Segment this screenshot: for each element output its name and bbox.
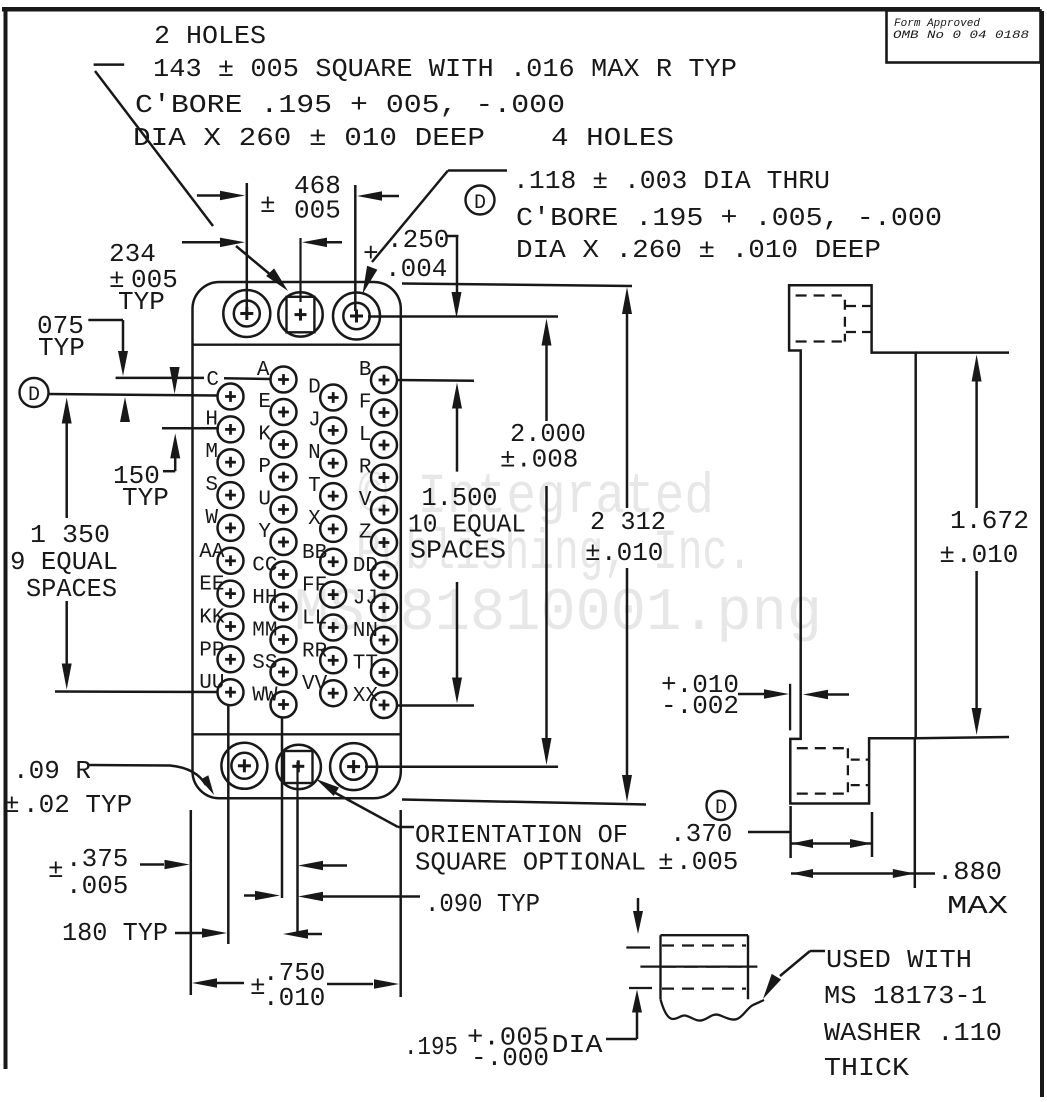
extension line left hole xyxy=(246,183,249,308)
pin HH xyxy=(252,587,296,620)
svg-text:.195: .195 xyxy=(404,1032,458,1062)
pin L xyxy=(359,424,397,458)
washer outline xyxy=(661,935,765,1020)
pin N xyxy=(308,442,346,476)
dimension .250 +.004 xyxy=(363,225,462,318)
svg-text:4 HOLES: 4 HOLES xyxy=(551,123,674,153)
svg-text:±: ± xyxy=(48,855,64,885)
extension line connector bottom edge xyxy=(402,800,646,805)
svg-text:.004: .004 xyxy=(385,254,447,284)
pin C xyxy=(218,384,244,410)
pin MM xyxy=(252,620,296,653)
svg-text:NN: NN xyxy=(353,620,378,643)
pin F xyxy=(359,392,397,426)
pin FF xyxy=(302,575,346,608)
svg-text:D: D xyxy=(28,384,40,407)
pin LL xyxy=(302,608,346,641)
svg-text:DIA X 260 ± 010 DEEP: DIA X 260 ± 010 DEEP xyxy=(133,123,485,153)
pin D xyxy=(308,377,346,411)
mounting hole top-left xyxy=(223,290,270,337)
svg-text:P: P xyxy=(258,456,271,479)
pin Y xyxy=(258,521,296,555)
svg-text:-.000: -.000 xyxy=(471,1043,549,1073)
svg-text:DD: DD xyxy=(353,555,378,578)
svg-text:JJ: JJ xyxy=(353,588,378,611)
svg-text:.370: .370 xyxy=(670,819,732,849)
svg-text:HH: HH xyxy=(252,587,277,610)
svg-text:CC: CC xyxy=(252,555,277,578)
washer hidden lines xyxy=(640,946,757,989)
dimension 1.350 9 equal spaces xyxy=(10,398,118,690)
svg-text:L: L xyxy=(359,424,372,447)
extension line pin WW column xyxy=(281,718,284,898)
svg-text:±: ± xyxy=(585,538,601,568)
dimension 1.672 xyxy=(916,353,1029,739)
svg-text:T: T xyxy=(308,475,321,498)
dimension .150 TYP xyxy=(113,367,180,513)
svg-text:.090 TYP: .090 TYP xyxy=(425,889,540,919)
svg-text:D: D xyxy=(715,797,727,820)
svg-text:RR: RR xyxy=(302,640,328,663)
svg-text:FF: FF xyxy=(302,575,327,598)
svg-text:C'BORE .195 + .005, -.000: C'BORE .195 + .005, -.000 xyxy=(516,203,942,233)
pin S xyxy=(205,474,243,508)
mounting hole bottom-middle square xyxy=(277,745,321,800)
row line H xyxy=(162,427,219,430)
mounting hole bottom-left xyxy=(221,743,267,789)
note .09 R corner radius xyxy=(4,756,214,820)
pin UU xyxy=(199,672,243,705)
svg-text:.880: .880 xyxy=(937,857,1002,887)
svg-text:±: ± xyxy=(260,190,276,220)
svg-text:R: R xyxy=(359,457,372,480)
note: orientation of square optional xyxy=(316,779,646,878)
extension line connector right edge xyxy=(399,810,402,997)
extension line bottom square center xyxy=(296,800,299,933)
pin A label xyxy=(257,359,270,382)
dimension .075 TYP xyxy=(37,311,130,422)
pin R xyxy=(359,457,397,491)
svg-text:+: + xyxy=(363,239,379,269)
svg-text:TYP: TYP xyxy=(38,333,85,363)
svg-text:.010: .010 xyxy=(956,540,1018,570)
pin B xyxy=(359,359,397,393)
svg-text:LL: LL xyxy=(302,608,327,631)
svg-text:2 HOLES: 2 HOLES xyxy=(154,21,266,51)
dimension 2.000 xyxy=(500,319,586,766)
svg-text:X: X xyxy=(308,508,321,531)
dimension .370 xyxy=(658,806,872,877)
svg-text:Y: Y xyxy=(258,521,271,544)
svg-text:J: J xyxy=(308,409,321,432)
pin E xyxy=(258,391,296,425)
extension line row B xyxy=(397,379,474,382)
datum symbol D (left) xyxy=(20,378,49,407)
svg-text:D: D xyxy=(308,377,321,400)
svg-text:S: S xyxy=(205,474,218,497)
svg-text:.118 ± .003 DIA THRU: .118 ± .003 DIA THRU xyxy=(513,166,830,196)
pin Z xyxy=(359,522,397,556)
svg-text:F: F xyxy=(359,392,372,415)
watermark line 2 xyxy=(356,522,752,586)
svg-text:KK: KK xyxy=(199,607,225,630)
side view hidden bore top xyxy=(846,306,872,332)
pin U xyxy=(258,489,296,523)
svg-text:143 ± 005 SQUARE WITH .016 MAX: 143 ± 005 SQUARE WITH .016 MAX R TYP xyxy=(153,54,737,84)
washer thickness arrows xyxy=(606,898,643,1039)
mounting hole bottom-right xyxy=(330,743,377,790)
svg-text:1.500: 1.500 xyxy=(422,483,498,513)
watermark line 3 xyxy=(294,580,822,648)
svg-text:1.672: 1.672 xyxy=(950,506,1029,536)
svg-text:E: E xyxy=(258,391,271,414)
svg-text:.09 R: .09 R xyxy=(13,756,91,786)
pin RR xyxy=(302,640,346,673)
side view lip edge xyxy=(789,684,791,731)
dimension .195 +.005 -.000 DIA xyxy=(404,1023,603,1074)
svg-text:DIA: DIA xyxy=(552,1030,603,1060)
flange line top xyxy=(194,344,401,346)
svg-text:ORIENTATION OF: ORIENTATION OF xyxy=(415,820,628,850)
svg-text:M: M xyxy=(205,441,218,464)
page border top xyxy=(2,7,1040,12)
washer reference ticks xyxy=(626,948,652,989)
page border right xyxy=(1040,11,1044,1097)
dimension 1.500 10 equal spaces xyxy=(408,383,526,704)
side view hidden bore bottom xyxy=(851,760,869,786)
svg-text:.02 TYP: .02 TYP xyxy=(23,790,132,820)
extension line right hole xyxy=(354,185,357,311)
svg-text:Form Approved: Form Approved xyxy=(894,18,980,30)
dimension 2.312 xyxy=(585,287,666,802)
pin V xyxy=(359,489,397,523)
svg-text:.375: .375 xyxy=(66,844,128,874)
svg-text:SPACES: SPACES xyxy=(410,536,506,566)
svg-text:SQUARE OPTIONAL: SQUARE OPTIONAL xyxy=(415,848,646,878)
svg-text:±: ± xyxy=(500,445,516,475)
extension line connector top edge xyxy=(402,284,632,287)
svg-text:K: K xyxy=(258,424,271,447)
pin J xyxy=(308,409,346,443)
dimension .180 TYP xyxy=(62,918,322,948)
side view hidden square bottom xyxy=(797,748,848,793)
svg-text:USED WITH: USED WITH xyxy=(826,945,972,975)
svg-text:DIA X .260 ± .010 DEEP: DIA X .260 ± .010 DEEP xyxy=(516,235,881,265)
svg-text:W: W xyxy=(205,507,218,530)
connector body outline xyxy=(193,282,401,798)
pin A xyxy=(271,367,297,393)
pin TT xyxy=(353,653,397,686)
svg-text:V: V xyxy=(359,489,372,512)
svg-text:.010: .010 xyxy=(263,983,325,1013)
leader: 2 HOLES note to square hole xyxy=(94,65,288,291)
pin WW xyxy=(252,685,296,718)
flange line bottom xyxy=(192,733,401,735)
dimension .375 xyxy=(48,844,347,901)
svg-text:OMB No 0 04 0188: OMB No 0 04 0188 xyxy=(893,30,1030,42)
note: used with MS 18173-1 washer xyxy=(763,945,1002,1083)
svg-text:±: ± xyxy=(4,790,20,820)
svg-text:VV: VV xyxy=(302,673,328,696)
svg-text:EE: EE xyxy=(199,574,224,597)
pin KK xyxy=(199,607,243,640)
pin AA xyxy=(199,541,243,574)
pin BB xyxy=(302,542,346,575)
svg-text:MAX: MAX xyxy=(947,891,1009,921)
svg-text:C'BORE .195 + 005, -.000: C'BORE .195 + 005, -.000 xyxy=(135,90,565,120)
svg-text:±: ± xyxy=(658,847,674,877)
svg-text:TT: TT xyxy=(353,653,378,676)
pin CC xyxy=(252,555,296,588)
mounting hole top-middle square xyxy=(278,238,322,337)
svg-text:MS 18173-1: MS 18173-1 xyxy=(824,981,987,1011)
svg-text:SPACES: SPACES xyxy=(26,574,117,604)
leader: 4 HOLES note to top-right hole xyxy=(363,171,508,295)
extension line row XX xyxy=(396,704,474,707)
dimension .090 TYP xyxy=(244,889,540,919)
pin C label xyxy=(206,369,219,392)
dimension .880 MAX xyxy=(791,739,1009,921)
page border left xyxy=(4,7,8,1069)
note: 2 HOLES square c'bore xyxy=(133,21,737,153)
pin SS xyxy=(252,652,296,685)
svg-text:WASHER .110: WASHER .110 xyxy=(824,1018,1002,1048)
pin K xyxy=(258,424,296,458)
dimension +.010 -.002 lip xyxy=(661,670,849,721)
pin T xyxy=(308,475,346,509)
pin M xyxy=(205,441,243,475)
svg-text:MM: MM xyxy=(252,620,277,643)
dimension .234 arrows xyxy=(182,238,342,248)
pin XX xyxy=(353,685,397,718)
datum symbol D (top) xyxy=(466,186,495,216)
svg-text:.250: .250 xyxy=(387,225,449,255)
svg-text:TYP: TYP xyxy=(118,287,165,317)
watermark line 1 xyxy=(358,466,714,530)
datum line to pin C xyxy=(49,394,219,396)
svg-text:.005: .005 xyxy=(66,871,128,901)
row line A xyxy=(116,378,271,379)
svg-text:1 350: 1 350 xyxy=(30,520,110,550)
svg-text:.005: .005 xyxy=(676,847,738,877)
pin NN xyxy=(353,620,397,653)
side view hidden square top xyxy=(796,296,845,342)
pin VV xyxy=(302,673,346,706)
pin DD xyxy=(353,555,397,588)
svg-text:WW: WW xyxy=(252,685,278,708)
form approved box xyxy=(887,11,1041,63)
extension line top hole center xyxy=(368,315,558,318)
svg-text:±: ± xyxy=(939,540,955,570)
svg-text:SS: SS xyxy=(252,652,277,675)
svg-text:XX: XX xyxy=(353,685,379,708)
svg-text:AA: AA xyxy=(199,541,225,564)
pin EE xyxy=(199,574,243,607)
pin JJ xyxy=(353,588,397,621)
svg-text:B: B xyxy=(359,359,372,382)
dimension .234 text xyxy=(109,239,178,317)
svg-text:-.002: -.002 xyxy=(661,691,739,721)
pin W xyxy=(205,507,243,541)
svg-text:D: D xyxy=(474,192,486,215)
row line UU xyxy=(55,690,218,693)
svg-text:BB: BB xyxy=(302,542,327,565)
side view outline xyxy=(789,285,916,803)
svg-text:Z: Z xyxy=(359,522,372,545)
svg-text:005: 005 xyxy=(294,196,341,226)
extension line middle hole xyxy=(0,0,1,1)
mounting hole top-right xyxy=(333,293,380,340)
extension line pin UU column xyxy=(227,706,230,944)
svg-text:2 312: 2 312 xyxy=(590,507,666,537)
svg-text:9 EQUAL: 9 EQUAL xyxy=(10,547,118,577)
dimension .468 between outer holes xyxy=(197,171,399,226)
extension line bottom hole center xyxy=(365,766,558,769)
dimension .750 xyxy=(192,958,399,1013)
extension line connector left edge xyxy=(190,810,193,995)
svg-text:.008: .008 xyxy=(516,445,578,475)
svg-text:N: N xyxy=(308,442,321,465)
pin P xyxy=(258,456,296,490)
datum symbol D (side view) xyxy=(707,791,736,820)
svg-text:C: C xyxy=(206,369,219,392)
svg-text:PP: PP xyxy=(199,639,224,662)
svg-text:U: U xyxy=(258,489,271,512)
svg-text:.010: .010 xyxy=(601,538,663,568)
note: 4 HOLES thru c'bore xyxy=(513,123,942,265)
pin H xyxy=(205,408,243,442)
svg-text:180 TYP: 180 TYP xyxy=(62,918,168,948)
svg-text:THICK: THICK xyxy=(824,1053,909,1083)
pin PP xyxy=(199,639,243,672)
svg-text:TYP: TYP xyxy=(122,483,169,513)
pin X xyxy=(308,508,346,542)
